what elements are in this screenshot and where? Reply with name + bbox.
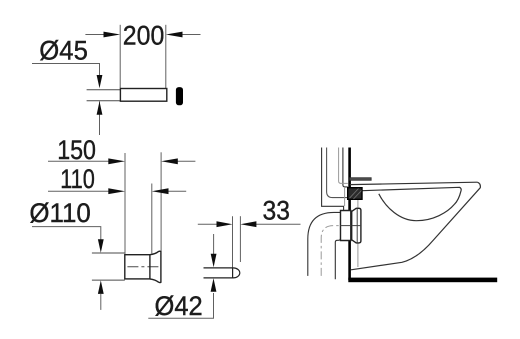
svg-text:Ø42: Ø42	[155, 291, 203, 321]
svg-text:Ø45: Ø45	[39, 35, 88, 65]
svg-text:200: 200	[123, 21, 165, 51]
svg-text:33: 33	[263, 195, 291, 225]
svg-text:150: 150	[57, 135, 96, 165]
svg-text:Ø110: Ø110	[29, 198, 90, 228]
svg-text:110: 110	[60, 164, 95, 194]
